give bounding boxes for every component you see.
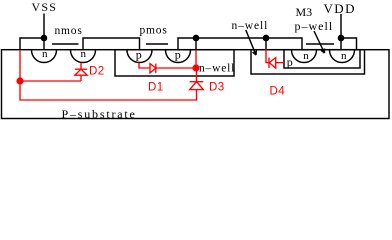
wire n-well tap contact <box>195 38 197 50</box>
svg-text:n: n <box>341 50 347 62</box>
node n-well tap junction <box>193 35 198 40</box>
svg-text:D1: D1 <box>148 82 164 94</box>
diode D1 pmos drain to n-well <box>139 63 150 69</box>
svg-text:P–substrate: P–substrate <box>62 107 137 121</box>
p-well box for M3 (inner) <box>284 50 360 68</box>
wire n-well tap (red) <box>195 50 197 68</box>
nmos drain n+ diffusion <box>71 50 96 63</box>
wire pmos source to n-well taps and M3 <box>178 38 302 50</box>
svg-text:n–well: n–well <box>199 63 235 75</box>
n-well label pointer arrow <box>246 30 256 55</box>
svg-text:n: n <box>303 50 309 62</box>
VSS supply wire <box>43 14 45 51</box>
diode D4 p-well to M3 n-well <box>266 49 269 63</box>
svg-text:D3: D3 <box>209 82 225 94</box>
node VSS junction <box>41 35 46 40</box>
svg-text:p: p <box>287 55 293 69</box>
svg-text:VSS: VSS <box>32 0 58 14</box>
svg-text:p–well: p–well <box>295 19 334 33</box>
svg-text:VDD: VDD <box>324 1 356 16</box>
wire VSS to substrate tap <box>20 38 44 50</box>
M3 n+ diffusion left <box>292 50 317 63</box>
wire substrate tap (red) <box>19 50 21 81</box>
svg-text:D2: D2 <box>89 66 105 78</box>
M3 n+ diffusion right <box>330 50 355 63</box>
VDD supply wire <box>340 14 342 50</box>
diode D2 nmos drain to substrate <box>80 63 82 70</box>
wire substrate rail 2 <box>20 81 197 100</box>
P-substrate box <box>2 50 390 119</box>
svg-text:nmos: nmos <box>55 25 83 37</box>
wire VDD to right n-well tap <box>341 38 357 50</box>
p-well label pointer arrow <box>314 31 325 53</box>
pmos gate <box>146 43 168 45</box>
node VDD junction <box>338 35 343 40</box>
nmos gate <box>52 43 79 45</box>
M3 gate <box>306 43 334 45</box>
svg-text:n: n <box>81 48 87 60</box>
node n-well (red dot) <box>193 65 199 71</box>
wire nmos drain to pmos drain <box>83 38 140 50</box>
node substrate (red dot) <box>17 78 23 84</box>
wire M3 n-well contact <box>265 38 267 49</box>
svg-text:p: p <box>136 48 142 62</box>
svg-text:n–well: n–well <box>232 20 269 32</box>
n-well box (pmos well) <box>115 50 234 76</box>
node M3 n-well junction <box>263 35 268 40</box>
nmos source n+ diffusion <box>32 50 57 63</box>
pmos source p+ diffusion <box>166 50 191 63</box>
svg-text:D4: D4 <box>270 86 286 98</box>
svg-text:p: p <box>175 48 181 62</box>
pmos drain p+ diffusion <box>127 50 152 63</box>
diode D3 n-well to substrate <box>190 82 204 90</box>
svg-text:n: n <box>42 48 48 60</box>
wire substrate rail 1 <box>20 80 81 82</box>
svg-text:M3: M3 <box>296 5 313 19</box>
n-well box for M3 (outer) <box>251 50 365 74</box>
svg-text:pmos: pmos <box>140 25 168 37</box>
